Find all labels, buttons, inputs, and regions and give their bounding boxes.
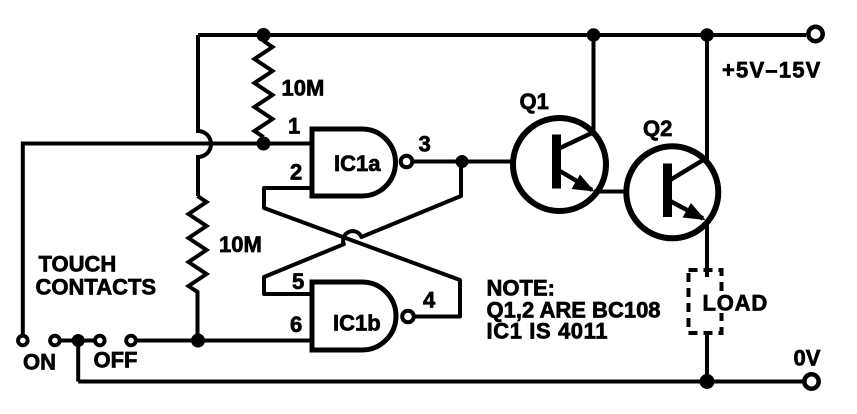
load (dashed outline) [689, 270, 722, 333]
svg-text:ON: ON [23, 350, 56, 375]
bubble: IC1b output [402, 311, 414, 323]
wire: centre node down to 0V rail [76, 341, 80, 382]
svg-text:IC1a: IC1a [334, 151, 381, 176]
svg-text:+5V–15V: +5V–15V [722, 58, 822, 83]
svg-text:Q1: Q1 [520, 89, 549, 114]
wire: node 3 cross-coupled to IC1b pin 5 with hop [264, 162, 461, 295]
resistor R2 10M [189, 196, 207, 334]
svg-text:CONTACTS: CONTACTS [36, 275, 157, 300]
svg-text:10M: 10M [219, 232, 262, 257]
terminal: +V supply [808, 27, 822, 41]
junction: node 3 [456, 155, 469, 168]
svg-text:6: 6 [290, 312, 302, 337]
wire: touch-ON contact up and across to IC1a pin 1 [23, 144, 312, 337]
svg-text:1: 1 [288, 114, 300, 139]
svg-text:4: 4 [423, 288, 436, 313]
terminal: 0V [804, 374, 818, 388]
svg-text:IC1b: IC1b [333, 311, 381, 336]
wire: IC1b output cross-coupled to IC1a pin 2 [264, 188, 460, 317]
junction: R1 top [257, 28, 271, 42]
wire: ON-right to OFF-left [60, 339, 95, 343]
bubble: IC1a output [401, 156, 413, 168]
touch contact ON right [50, 336, 60, 346]
wire: left vertical from top rail to R2 with hop over pin-1 wire [198, 35, 211, 196]
junction: R1 bottom [257, 137, 271, 151]
resistor R1 10M [255, 41, 273, 137]
touch contact OFF left [95, 336, 105, 346]
touch contact ON left [18, 336, 28, 346]
wire: +V top rail [198, 33, 806, 37]
label LOAD [700, 294, 725, 313]
wire: load to 0V rail [705, 334, 709, 382]
wire: OFF-right across to IC1b pin 6 [137, 339, 313, 343]
junction: Q1 collector on rail [587, 28, 601, 42]
wire: 0V bottom rail [78, 380, 803, 384]
svg-text:OFF: OFF [94, 348, 138, 373]
transistor Q1 [513, 118, 606, 211]
svg-text:3: 3 [419, 132, 431, 157]
wire: Q1 collector to +V rail [592, 35, 596, 133]
touch contact OFF right [126, 336, 136, 346]
junction: contacts centre node [72, 334, 85, 347]
junction: R2 bottom [191, 334, 205, 348]
NAND gate IC1b [312, 282, 396, 350]
junction: load on 0V rail [700, 374, 715, 389]
svg-text:LOAD: LOAD [703, 291, 769, 316]
svg-text:0V: 0V [794, 346, 821, 371]
wire: IC1a output to Q1 base [413, 160, 553, 164]
NAND gate IC1a [312, 129, 396, 196]
wire: Q1 emitter to Q2 base [594, 190, 665, 194]
svg-text:IC1 IS 4011: IC1 IS 4011 [487, 319, 609, 344]
svg-text:5: 5 [292, 269, 304, 294]
svg-text:TOUCH: TOUCH [39, 252, 117, 277]
svg-text:2: 2 [290, 160, 302, 185]
junction: Q2 collector on rail [700, 28, 714, 42]
svg-text:Q2: Q2 [643, 116, 672, 141]
wire: Q2 emitter down to load [705, 222, 709, 277]
transistor Q2 [626, 146, 718, 238]
svg-text:10M: 10M [282, 76, 325, 101]
wire: Q2 collector to +V rail [705, 35, 709, 160]
